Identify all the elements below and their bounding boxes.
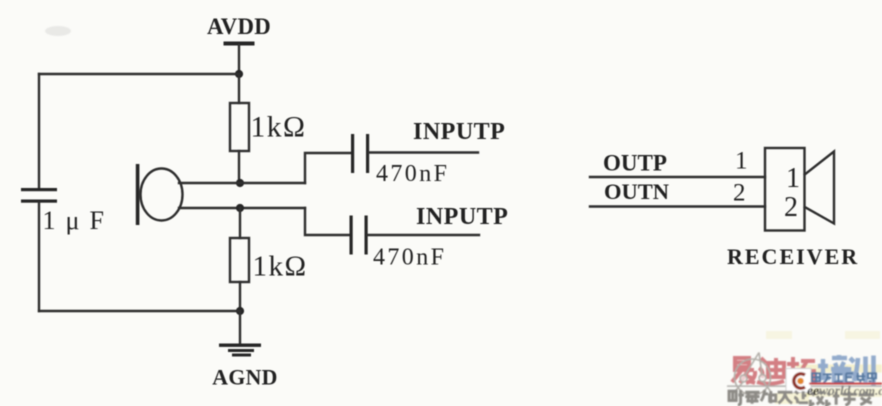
node D junction	[236, 307, 244, 315]
wire R2 to node D	[239, 282, 241, 311]
svg-text:OUTN: OUTN	[604, 179, 669, 204]
speaker horn	[805, 152, 834, 224]
watermark big char 迪 red	[757, 358, 784, 384]
watermark big char 训 blue	[849, 356, 874, 386]
svg-text:INPUTP: INPUTP	[416, 204, 508, 230]
microphone MIC circle	[141, 169, 183, 221]
svg-text:1kΩ: 1kΩ	[251, 112, 307, 144]
watermark big char 培 blue	[817, 355, 848, 382]
wire AVDD to node A	[238, 45, 240, 74]
svg-text:eeworld.com.cn: eeworld.com.cn	[807, 383, 882, 398]
wire OUTP	[590, 176, 765, 178]
wire C2 to INPUTP	[369, 151, 478, 153]
power AVDD bar	[224, 42, 255, 46]
wire MIC bottom terminal	[179, 207, 305, 209]
wire node D to ground	[239, 311, 241, 343]
svg-text:1: 1	[735, 148, 748, 175]
microphone MIC bar	[136, 164, 140, 225]
svg-text:OUTP: OUTP	[603, 151, 667, 176]
svg-text:470nF: 470nF	[376, 161, 449, 187]
svg-text:RECEIVER: RECEIVER	[727, 244, 859, 269]
wire node B to C2	[305, 153, 351, 183]
svg-text:2: 2	[784, 192, 798, 223]
watermark gray chars 射频和天线设计专家	[729, 390, 874, 405]
watermark big char 拓 red	[787, 357, 815, 382]
node C junction	[236, 204, 244, 212]
watermark compass drawing	[734, 353, 772, 396]
wire node A to left branch	[39, 73, 239, 75]
svg-text:AVDD: AVDD	[207, 14, 271, 39]
watermark big char 易 red	[732, 358, 755, 383]
node B junction	[236, 179, 244, 187]
svg-text:AGND: AGND	[212, 366, 277, 390]
watermark eeworld logo box	[786, 369, 811, 393]
capacitor C3 plates	[350, 216, 353, 255]
resistor R2	[230, 238, 249, 282]
faint highlight boxes	[766, 331, 792, 339]
capacitor C2 plates	[351, 134, 354, 173]
wire node C to R2	[239, 208, 241, 238]
svg-text:1μF: 1μF	[43, 206, 114, 235]
node A junction	[235, 70, 243, 78]
ground AGND symbol	[219, 344, 261, 347]
svg-text:1kΩ: 1kΩ	[253, 251, 308, 283]
wire left branch bottom	[39, 310, 240, 312]
wire left branch vertical top	[38, 74, 40, 188]
wire node A to R1	[238, 74, 240, 103]
svg-text:2: 2	[733, 180, 746, 207]
svg-text:470nF: 470nF	[373, 245, 446, 271]
receiver J1 box	[765, 148, 805, 231]
watermark group	[727, 331, 882, 405]
svg-text:1: 1	[786, 163, 800, 194]
wire left branch vertical bottom	[38, 203, 40, 312]
watermark text 电子工程世界 blue blocks	[812, 372, 876, 383]
wire OUTN	[590, 205, 765, 207]
wire MIC top terminal	[179, 182, 305, 184]
wire R1 to node B	[238, 151, 240, 183]
capacitor C1 plates	[21, 188, 57, 191]
wire C3 to INPUTP	[368, 234, 479, 236]
wire node C to C3	[305, 208, 349, 235]
watermark red underline	[809, 383, 882, 385]
watermark gray line	[727, 385, 882, 387]
svg-text:INPUTP: INPUTP	[413, 119, 505, 145]
faint smudge	[45, 26, 71, 36]
resistor R1	[230, 103, 249, 151]
